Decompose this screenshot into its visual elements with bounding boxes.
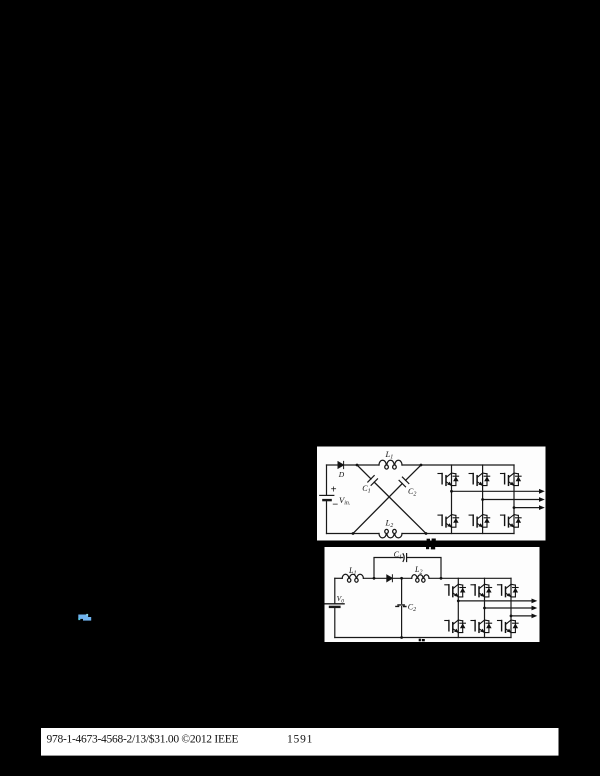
wire: main rail to L1 (fig2) <box>335 577 342 579</box>
footer white strip <box>41 728 559 756</box>
transistor S6 (fig2 leg C low side IGBT) <box>498 620 519 633</box>
transistor S3 (fig2 leg B high side IGBT) <box>471 584 492 597</box>
wire: C1 loop left riser (fig2) <box>374 558 403 579</box>
wire: output phase line B (fig2) <box>485 607 533 609</box>
arrowhead: output phase B (fig1) <box>539 497 545 502</box>
wire: output phase line C (fig1) <box>514 507 540 509</box>
battery V0 positive plate (fig2) <box>325 603 344 605</box>
node: leg A output (fig1) <box>450 490 453 493</box>
inductor L1 (fig1) <box>379 460 402 469</box>
inductor L1 (fig2) <box>342 574 363 582</box>
wire: top rail left segment (fig1) <box>327 464 339 466</box>
node: leg C output (fig2) <box>510 615 513 618</box>
transistor Q5 (fig1 leg C high side IGBT) <box>501 473 522 486</box>
diode (between L1 and L2, fig2) <box>387 575 393 582</box>
inductor L2 (fig2) <box>412 575 429 583</box>
diode D <box>338 461 344 468</box>
node: leg C output (fig1) <box>513 506 516 509</box>
wire: rail from diode to L2 (fig2) <box>392 577 411 579</box>
wire: inverter leg B (fig1) <box>482 465 484 534</box>
wire: top rail from diode to L1 <box>344 464 379 466</box>
battery V_in negative plate <box>323 499 330 501</box>
wire: output phase line A (fig2) <box>458 600 532 602</box>
battery V0 negative plate (fig2) <box>330 606 339 608</box>
transistor Q2 (fig1 leg A low side IGBT) <box>438 515 459 528</box>
transistor S5 (fig2 leg C high side IGBT) <box>498 584 519 597</box>
node: C2 meets bottom rail (fig2) <box>400 636 403 639</box>
transistor Q6 (fig1 leg C low side IGBT) <box>501 515 522 528</box>
capacitor C2 plate (fig2) <box>396 605 406 607</box>
wire: C1 loop right side (fig2) <box>407 558 441 579</box>
wire: inverter leg B (fig2) <box>484 578 486 637</box>
node: leg B output (fig2) <box>483 607 486 610</box>
inductor L2 (fig1) <box>379 529 402 538</box>
transistor Q4 (fig1 leg B low side IGBT) <box>469 515 490 528</box>
capacitor C1 plates (fig1) <box>368 476 378 486</box>
highlighted link mark (small blue blob on black page) <box>78 614 91 621</box>
svg-text:+: + <box>331 484 337 495</box>
capacitor C2 plates (fig1) <box>399 477 409 487</box>
wire: bottom rail left segment (fig1) <box>327 533 380 535</box>
wire: diagonal with C1 (upper-left to lower-right, fig1) <box>357 465 426 534</box>
svg-text:1591: 1591 <box>287 734 313 746</box>
battery V_in positive plate <box>320 494 334 496</box>
arrowhead: output phase B (fig2) <box>532 606 538 611</box>
wire: left vertical (source branch, fig1) <box>326 465 328 534</box>
wire: top rail from L1 to inverter (fig1) <box>402 464 514 466</box>
wire: output phase line A (fig1) <box>452 490 540 492</box>
node: X-network top-left (fig1) <box>356 464 359 467</box>
caption fragment under figure 1 <box>427 539 436 541</box>
wire: left vertical (source branch, fig2) <box>334 578 336 637</box>
caption fragment above figure 2 <box>426 547 435 550</box>
node: rail junction at C2 branch (fig2) <box>400 577 403 580</box>
node: X-network bottom-right (fig1) <box>425 532 428 535</box>
wire: inverter leg A (fig2) <box>457 578 459 637</box>
svg-text:D: D <box>338 470 345 479</box>
wire: bottom rail from L2 to inverter (fig1) <box>402 533 514 535</box>
transistor S1 (fig2 leg A high side IGBT) <box>445 584 466 597</box>
transistor S4 (fig2 leg B low side IGBT) <box>471 620 492 633</box>
node: X-network top-right (fig1) <box>420 464 423 467</box>
node: leg B output (fig1) <box>481 498 484 501</box>
arrowhead: output phase A (fig2) <box>532 599 538 604</box>
wire: bottom rail (fig2) <box>335 637 511 639</box>
wire: C2 branch lower (fig2) <box>401 607 403 638</box>
node: X-network bottom-left (fig1) <box>352 532 355 535</box>
node: leg A output (fig2) <box>457 600 460 603</box>
wire: rail from L1 to diode (fig2) <box>363 577 386 579</box>
wire: output phase line C (fig2) <box>511 615 532 617</box>
transistor Q3 (fig1 leg B high side IGBT) <box>469 473 490 486</box>
arrowhead: output phase A (fig1) <box>539 489 545 494</box>
arrowhead: output phase C (fig1) <box>539 505 545 510</box>
transistor Q1 (fig1 leg A high side IGBT) <box>438 473 459 486</box>
arrowhead: output phase C (fig2) <box>532 614 538 619</box>
wire: rail from L2 to inverter (fig2) <box>429 577 511 579</box>
transistor S2 (fig2 leg A low side IGBT) <box>445 620 466 633</box>
figure 2 panel (white background box) <box>325 547 540 642</box>
node: rail junction at C1 loop right (fig2) <box>440 577 443 580</box>
wire: inverter leg A (fig1) <box>451 465 453 534</box>
wire: inverter leg C (fig1) <box>513 465 515 534</box>
node: rail junction at C1 loop left (fig2) <box>373 577 376 580</box>
svg-text:−: − <box>332 500 338 511</box>
wire: output phase line B (fig1) <box>483 499 540 501</box>
svg-text:978-1-4673-4568-2/13/$31.00 ©2: 978-1-4673-4568-2/13/$31.00 ©2012 IEEE <box>47 733 239 746</box>
wire: C2 branch upper (fig2) <box>401 578 403 603</box>
wire: inverter leg C (fig2) <box>510 578 512 637</box>
wire: diagonal with C2 (upper-right to lower-left, fig1) <box>353 465 421 534</box>
caption fragment under figure 2 <box>419 639 425 642</box>
figure 1 panel (white background box) <box>317 447 546 541</box>
capacitor C1 plates (fig2) <box>403 554 407 562</box>
